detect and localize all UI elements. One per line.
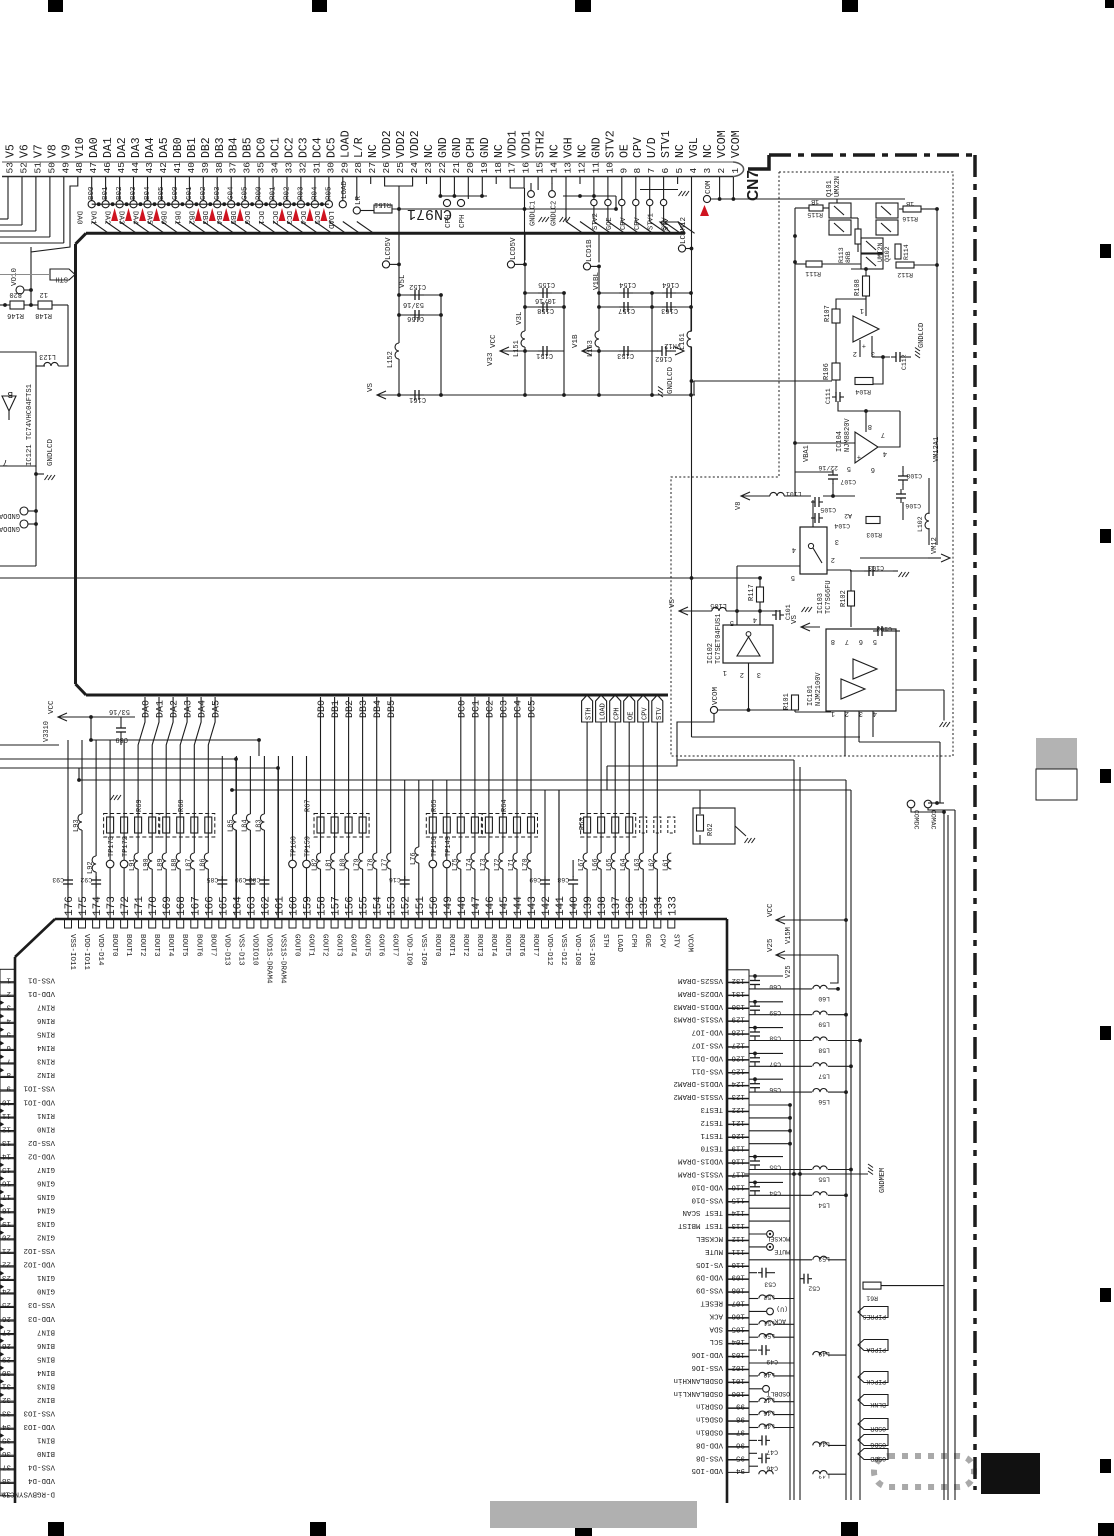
- svg-text:7: 7: [845, 637, 849, 645]
- svg-text:DA3: DA3: [184, 700, 195, 718]
- svg-text:R69: R69: [136, 799, 144, 812]
- svg-text:16: 16: [521, 162, 532, 174]
- svg-text:OSDBin: OSDBin: [696, 1428, 723, 1436]
- svg-text:L93: L93: [73, 819, 81, 832]
- svg-text:BIN6: BIN6: [36, 1341, 55, 1349]
- svg-text:DC1: DC1: [270, 137, 283, 158]
- svg-text:PIPDA: PIPDA: [866, 1346, 886, 1353]
- svg-text:L60: L60: [818, 995, 830, 1002]
- svg-text:L48: L48: [763, 1371, 775, 1378]
- svg-text:R117: R117: [748, 584, 756, 601]
- svg-text:153: 153: [387, 896, 399, 916]
- svg-text:VSS1S-DRAM2: VSS1S-DRAM2: [673, 1092, 723, 1100]
- svg-text:820: 820: [9, 290, 22, 298]
- svg-text:MUTE: MUTE: [704, 1247, 723, 1255]
- svg-text:VSS-D4: VSS-D4: [27, 1463, 55, 1471]
- svg-text:VDD2: VDD2: [395, 130, 408, 158]
- svg-text:7: 7: [3, 457, 8, 467]
- svg-text:MUTE: MUTE: [774, 1248, 790, 1255]
- svg-text:Q102: Q102: [884, 246, 891, 262]
- svg-text:+: +: [857, 452, 861, 460]
- svg-text:161: 161: [274, 896, 286, 916]
- svg-text:ROUT1: ROUT1: [447, 934, 455, 957]
- svg-text:R107: R107: [824, 305, 832, 322]
- svg-text:DA5: DA5: [145, 211, 153, 225]
- svg-text:DA4: DA4: [131, 211, 139, 225]
- svg-text:R102: R102: [840, 590, 848, 607]
- svg-text:V6: V6: [19, 144, 32, 158]
- svg-text:STV1: STV1: [648, 213, 656, 230]
- svg-text:1B: 1B: [811, 198, 819, 205]
- svg-text:L88: L88: [171, 858, 179, 871]
- svg-text:1: 1: [723, 668, 727, 676]
- svg-text:R116: R116: [902, 215, 918, 222]
- svg-text:STH: STH: [601, 934, 609, 948]
- svg-text:Q101: Q101: [826, 180, 834, 197]
- svg-text:139: 139: [583, 896, 595, 916]
- svg-text:DC2: DC2: [284, 137, 297, 158]
- svg-text:BIN7: BIN7: [37, 1327, 55, 1335]
- svg-text:LCD1B: LCD1B: [586, 239, 594, 262]
- svg-text:150: 150: [429, 896, 441, 916]
- svg-text:VDD-IO7: VDD-IO7: [691, 1028, 723, 1036]
- svg-text:VCOM: VCOM: [730, 130, 743, 158]
- svg-text:IC102: IC102: [707, 643, 715, 664]
- svg-text:VCC: VCC: [767, 903, 775, 917]
- svg-text:C111: C111: [825, 388, 832, 404]
- svg-text:GNDLCD: GNDLCD: [918, 323, 926, 348]
- svg-text:VDD-D9: VDD-D9: [696, 1273, 723, 1281]
- svg-text:MCKSEL: MCKSEL: [766, 1235, 790, 1242]
- svg-text:L161: L161: [679, 333, 687, 350]
- svg-text:VDD-IO3: VDD-IO3: [23, 1422, 55, 1430]
- svg-text:168: 168: [176, 896, 188, 916]
- svg-text:D-RGBVSYNCin: D-RGBVSYNCin: [1, 1490, 55, 1498]
- svg-text:VDD-D12: VDD-D12: [545, 934, 553, 966]
- svg-text:COMDC: COMDC: [913, 810, 920, 830]
- svg-text:TEST1: TEST1: [700, 1131, 723, 1139]
- svg-text:R101: R101: [783, 693, 791, 710]
- svg-text:VSS-D13: VSS-D13: [236, 934, 244, 966]
- svg-text:31: 31: [311, 162, 322, 174]
- svg-text:VSS2S-DRAM: VSS2S-DRAM: [677, 976, 723, 984]
- svg-text:B00: B00: [88, 186, 96, 200]
- svg-text:NC: NC: [702, 144, 715, 158]
- svg-text:V25: V25: [785, 965, 793, 978]
- svg-text:GIN6: GIN6: [36, 1179, 55, 1187]
- svg-text:CPV: CPV: [642, 707, 650, 720]
- svg-text:C46: C46: [766, 1464, 778, 1471]
- svg-text:OSDBLT: OSDBLT: [766, 1390, 790, 1397]
- svg-text:28: 28: [353, 162, 364, 174]
- svg-text:1: 1: [730, 168, 741, 174]
- svg-text:147: 147: [471, 896, 483, 916]
- svg-text:NC: NC: [577, 144, 590, 158]
- svg-text:LOAD: LOAD: [326, 211, 334, 230]
- svg-text:L50: L50: [763, 1332, 775, 1339]
- svg-text:4: 4: [688, 168, 699, 174]
- svg-text:C89: C89: [115, 735, 128, 743]
- svg-text:GNDLCD: GNDLCD: [47, 438, 55, 466]
- svg-text:C47: C47: [766, 1448, 778, 1455]
- svg-text:3: 3: [871, 349, 875, 357]
- svg-text:DA0: DA0: [75, 211, 83, 225]
- svg-text:VDD-D11: VDD-D11: [691, 1053, 723, 1061]
- svg-text:R04: R04: [311, 186, 319, 200]
- svg-text:143: 143: [527, 896, 539, 916]
- svg-text:VDD-IO9: VDD-IO9: [405, 934, 413, 966]
- svg-text:STV: STV: [656, 707, 664, 720]
- svg-text:B03: B03: [130, 186, 138, 200]
- svg-text:BIN5: BIN5: [36, 1354, 55, 1362]
- svg-text:GOUT5: GOUT5: [363, 934, 371, 957]
- svg-text:G03: G03: [214, 186, 222, 200]
- svg-text:UMT2N: UMT2N: [877, 242, 884, 262]
- svg-text:34: 34: [270, 162, 281, 174]
- svg-text:VDD2: VDD2: [409, 130, 422, 158]
- svg-text:VSS-IO11: VSS-IO11: [68, 934, 76, 971]
- svg-text:L152: L152: [387, 351, 395, 368]
- svg-text:L55: L55: [818, 1176, 830, 1183]
- svg-text:VSS-D12: VSS-D12: [559, 934, 567, 966]
- svg-text:DC4: DC4: [298, 211, 306, 225]
- svg-text:BOUT7: BOUT7: [208, 934, 216, 957]
- svg-text:L66: L66: [592, 858, 600, 871]
- svg-text:DB3: DB3: [359, 700, 370, 718]
- svg-text:R115: R115: [807, 211, 823, 218]
- svg-text:145: 145: [499, 896, 511, 916]
- svg-text:DB5: DB5: [228, 211, 236, 225]
- svg-text:DC5: DC5: [312, 211, 320, 225]
- svg-text:L47: L47: [763, 1397, 775, 1404]
- svg-text:1: 1: [831, 709, 835, 717]
- svg-text:B01: B01: [102, 186, 110, 200]
- svg-text:R151: R151: [374, 200, 391, 208]
- svg-text:DB5: DB5: [242, 137, 255, 158]
- svg-text:R111: R111: [805, 270, 821, 277]
- svg-text:C85: C85: [206, 876, 218, 883]
- svg-text:VDD-IO2: VDD-IO2: [23, 1260, 55, 1268]
- svg-text:L/R: L/R: [353, 137, 366, 158]
- svg-text:C53: C53: [764, 1281, 776, 1288]
- svg-text:CPV: CPV: [634, 217, 642, 230]
- svg-text:OSDBLANKLin: OSDBLANKLin: [673, 1389, 723, 1397]
- svg-text:DC4: DC4: [311, 137, 324, 158]
- svg-text:R146: R146: [7, 311, 24, 319]
- svg-text:C52: C52: [808, 1285, 820, 1292]
- svg-text:1: 1: [6, 976, 11, 984]
- svg-text:C158: C158: [537, 306, 554, 314]
- svg-text:L102: L102: [917, 516, 924, 532]
- svg-text:VDD-IO8: VDD-IO8: [573, 934, 581, 966]
- svg-text:2: 2: [740, 670, 744, 678]
- svg-text:3: 3: [6, 1003, 11, 1011]
- svg-text:V33: V33: [487, 352, 495, 366]
- svg-text:TC7SET04FUS1: TC7SET04FUS1: [715, 614, 723, 664]
- svg-text:VDD1: VDD1: [521, 130, 534, 158]
- svg-text:V3310: V3310: [43, 721, 51, 742]
- svg-text:VSS-IO7: VSS-IO7: [691, 1041, 723, 1049]
- svg-text:L85: L85: [227, 819, 235, 832]
- svg-text:C93: C93: [52, 876, 64, 883]
- svg-text:VSS-D10: VSS-D10: [691, 1195, 723, 1203]
- svg-text:BOUT0: BOUT0: [110, 934, 118, 957]
- svg-text:R104: R104: [855, 388, 871, 395]
- svg-text:GNDLC2: GNDLC2: [551, 201, 559, 226]
- svg-text:BOUT2: BOUT2: [138, 934, 146, 957]
- svg-text:DC5: DC5: [325, 137, 338, 158]
- svg-text:148: 148: [457, 896, 469, 916]
- svg-text:DC2: DC2: [485, 700, 496, 718]
- svg-text:OE: OE: [628, 712, 636, 720]
- svg-text:VS: VS: [367, 382, 375, 392]
- svg-text:GIN5: GIN5: [36, 1192, 55, 1200]
- svg-text:10/16: 10/16: [535, 296, 556, 304]
- svg-text:B: B: [7, 389, 13, 399]
- svg-text:L74: L74: [466, 858, 474, 871]
- svg-text:5: 5: [791, 573, 795, 581]
- svg-text:DB2: DB2: [200, 137, 213, 158]
- svg-text:ROUT3: ROUT3: [475, 934, 483, 957]
- svg-text:V15M: V15M: [785, 927, 793, 944]
- svg-text:R01: R01: [270, 186, 278, 200]
- svg-text:VSS-IO8: VSS-IO8: [587, 934, 595, 966]
- svg-text:L57: L57: [818, 1072, 830, 1079]
- svg-text:VCOM: VCOM: [712, 686, 720, 705]
- svg-text:CPV: CPV: [620, 217, 628, 230]
- svg-text:9: 9: [618, 168, 629, 174]
- svg-text:C69: C69: [529, 876, 541, 883]
- svg-text:L76: L76: [410, 852, 418, 865]
- svg-text:VCOM: VCOM: [685, 934, 693, 953]
- svg-text:4: 4: [883, 449, 887, 457]
- svg-text:163: 163: [246, 896, 258, 916]
- svg-text:C163: C163: [661, 306, 678, 314]
- svg-text:VSS-D2: VSS-D2: [28, 1138, 55, 1146]
- svg-text:R61: R61: [866, 1295, 878, 1302]
- svg-text:DB3: DB3: [214, 137, 227, 158]
- svg-text:53/16: 53/16: [109, 707, 130, 715]
- svg-text:GOUT1: GOUT1: [307, 934, 315, 957]
- svg-text:ROUT6: ROUT6: [517, 934, 525, 957]
- svg-text:144: 144: [513, 896, 525, 916]
- svg-text:RIN7: RIN7: [37, 1003, 55, 1011]
- svg-text:140: 140: [569, 896, 581, 916]
- svg-text:(U): (U): [776, 1305, 788, 1312]
- svg-text:C112: C112: [901, 354, 908, 370]
- svg-text:DA0: DA0: [142, 700, 153, 718]
- svg-text:GOUT6: GOUT6: [377, 934, 385, 957]
- svg-text:V1BL: V1BL: [593, 271, 601, 290]
- svg-text:DC3: DC3: [499, 700, 510, 718]
- svg-text:C156: C156: [407, 314, 424, 322]
- svg-text:CPH: CPH: [614, 707, 622, 720]
- svg-text:25: 25: [395, 162, 406, 174]
- svg-text:5: 5: [6, 1030, 11, 1038]
- svg-text:ROUT2: ROUT2: [461, 934, 469, 957]
- svg-text:C155: C155: [538, 280, 555, 288]
- svg-text:R114: R114: [903, 244, 910, 260]
- svg-text:C103: C103: [868, 564, 884, 571]
- svg-text:STV1: STV1: [660, 130, 673, 158]
- svg-text:VDD-D14: VDD-D14: [96, 934, 104, 966]
- svg-text:+: +: [862, 341, 866, 349]
- svg-text:L81: L81: [326, 858, 334, 871]
- svg-text:171: 171: [134, 896, 146, 916]
- svg-text:52: 52: [19, 162, 30, 174]
- svg-text:146: 146: [485, 896, 497, 916]
- svg-text:36: 36: [242, 162, 253, 174]
- svg-text:L84: L84: [241, 819, 249, 832]
- svg-text:VS: VS: [791, 614, 799, 624]
- svg-text:DA4: DA4: [198, 700, 209, 718]
- svg-text:DA1: DA1: [156, 700, 167, 718]
- svg-text:VDD2: VDD2: [381, 130, 394, 158]
- svg-text:CPH: CPH: [459, 214, 467, 228]
- svg-text:VSS-D3: VSS-D3: [27, 1300, 55, 1308]
- svg-text:STV2: STV2: [592, 213, 600, 230]
- svg-text:DB4: DB4: [214, 211, 222, 225]
- svg-text:2: 2: [853, 349, 857, 357]
- svg-text:L92: L92: [87, 861, 95, 874]
- svg-text:151: 151: [415, 896, 427, 916]
- svg-text:VDD-D10: VDD-D10: [691, 1182, 723, 1190]
- svg-text:RIN0: RIN0: [36, 1124, 55, 1132]
- svg-text:MCKSEL: MCKSEL: [695, 1234, 723, 1242]
- svg-text:11: 11: [590, 162, 601, 174]
- svg-text:141: 141: [555, 896, 567, 916]
- svg-text:L79: L79: [354, 858, 362, 871]
- svg-text:C105: C105: [820, 506, 836, 513]
- svg-text:OSDGin: OSDGin: [696, 1415, 723, 1423]
- svg-text:DB1: DB1: [331, 700, 342, 718]
- svg-text:VDD1: VDD1: [507, 130, 520, 158]
- svg-text:VDD-IO6: VDD-IO6: [691, 1350, 723, 1358]
- svg-text:26: 26: [381, 162, 392, 174]
- svg-text:R64: R64: [501, 799, 509, 812]
- svg-text:42: 42: [158, 162, 169, 174]
- svg-text:VO10: VO10: [11, 267, 19, 286]
- svg-text:2: 2: [831, 555, 835, 563]
- svg-text:ROUT4: ROUT4: [489, 934, 497, 957]
- svg-text:IC101: IC101: [807, 685, 815, 706]
- svg-text:LOAD: LOAD: [339, 130, 352, 158]
- svg-text:22: 22: [2, 1260, 11, 1268]
- svg-text:162: 162: [260, 896, 272, 916]
- svg-text:L70: L70: [522, 858, 530, 871]
- svg-text:LCD5V: LCD5V: [385, 237, 393, 260]
- svg-text:GNDOA: GNDOA: [0, 524, 20, 532]
- svg-text:5: 5: [674, 168, 685, 174]
- svg-text:B04: B04: [144, 186, 152, 200]
- svg-text:VSS-IO1: VSS-IO1: [23, 1084, 55, 1092]
- svg-text:22/16: 22/16: [818, 464, 838, 471]
- svg-text:VBA1: VBA1: [803, 445, 811, 462]
- svg-text:CPH: CPH: [445, 214, 453, 228]
- svg-text:R05: R05: [325, 186, 333, 200]
- svg-text:9: 9: [6, 1084, 11, 1092]
- svg-text:V1B: V1B: [572, 334, 580, 348]
- svg-text:VSS1S-DRAM: VSS1S-DRAM: [677, 1170, 723, 1178]
- svg-text:TC7S66FU: TC7S66FU: [825, 580, 833, 614]
- svg-text:160: 160: [289, 896, 301, 916]
- svg-text:37: 37: [228, 162, 239, 173]
- svg-text:VSS-IO3: VSS-IO3: [23, 1409, 55, 1417]
- svg-text:C49: C49: [766, 1358, 778, 1365]
- svg-text:TP149: TP149: [445, 836, 453, 857]
- svg-text:L82: L82: [312, 858, 320, 871]
- svg-text:RIN3: RIN3: [36, 1057, 55, 1065]
- svg-text:R68: R68: [178, 799, 186, 812]
- svg-text:R148: R148: [35, 311, 52, 319]
- svg-text:RIN1: RIN1: [36, 1111, 55, 1119]
- svg-text:V5L: V5L: [399, 274, 407, 288]
- svg-text:L45: L45: [763, 1423, 775, 1430]
- svg-text:DB1: DB1: [186, 137, 199, 158]
- svg-text:137: 137: [611, 896, 623, 916]
- svg-text:23: 23: [423, 162, 434, 174]
- svg-text:B02: B02: [116, 186, 124, 200]
- svg-text:IC104: IC104: [836, 431, 844, 452]
- svg-text:166: 166: [204, 896, 216, 916]
- svg-text:1: 1: [860, 306, 864, 314]
- svg-text:VDD-D2: VDD-D2: [28, 1151, 55, 1159]
- svg-text:8RB: 8RB: [845, 251, 852, 263]
- svg-text:8: 8: [868, 422, 872, 430]
- svg-text:32: 32: [297, 162, 308, 174]
- svg-text:169: 169: [162, 896, 174, 916]
- svg-text:VDDIO10: VDDIO10: [250, 934, 258, 966]
- svg-text:VM12A1: VM12A1: [933, 437, 941, 462]
- svg-text:VM12: VM12: [931, 537, 939, 554]
- svg-text:V3L: V3L: [516, 311, 524, 325]
- svg-text:L75: L75: [452, 858, 460, 871]
- svg-text:VDD1S-DRAM: VDD1S-DRAM: [677, 1157, 723, 1165]
- svg-text:TP159: TP159: [305, 836, 313, 857]
- svg-text:3: 3: [702, 168, 713, 174]
- svg-text:V10: V10: [74, 137, 87, 158]
- svg-text:6: 6: [660, 168, 671, 174]
- svg-text:L51: L51: [763, 1319, 775, 1326]
- svg-text:C104: C104: [834, 522, 850, 529]
- svg-text:ROUT0: ROUT0: [433, 934, 441, 957]
- svg-text:G04: G04: [228, 186, 236, 200]
- svg-text:C157: C157: [618, 306, 635, 314]
- svg-text:170: 170: [148, 896, 160, 916]
- svg-text:138: 138: [597, 896, 609, 916]
- svg-text:C83: C83: [249, 876, 261, 883]
- svg-text:CPH: CPH: [629, 934, 637, 948]
- svg-text:STH: STH: [55, 275, 68, 283]
- svg-text:DB4: DB4: [373, 700, 384, 718]
- svg-text:20: 20: [465, 162, 476, 174]
- svg-text:TEST2: TEST2: [700, 1118, 723, 1126]
- svg-text:47: 47: [88, 162, 99, 173]
- svg-text:DA2: DA2: [116, 137, 129, 158]
- svg-text:DC3: DC3: [297, 137, 310, 158]
- svg-text:C92: C92: [80, 876, 92, 883]
- svg-text:L73: L73: [480, 858, 488, 871]
- svg-text:GIN1: GIN1: [36, 1273, 55, 1281]
- svg-text:4: 4: [792, 545, 796, 553]
- svg-text:LCOM12: LCOM12: [680, 217, 688, 244]
- svg-text:29: 29: [339, 162, 350, 174]
- svg-text:GNDLCD: GNDLCD: [667, 366, 675, 394]
- svg-text:DA3: DA3: [130, 137, 143, 158]
- svg-text:VSS-IO6: VSS-IO6: [691, 1363, 723, 1371]
- svg-text:5: 5: [730, 618, 734, 626]
- svg-text:L53: L53: [818, 1255, 830, 1262]
